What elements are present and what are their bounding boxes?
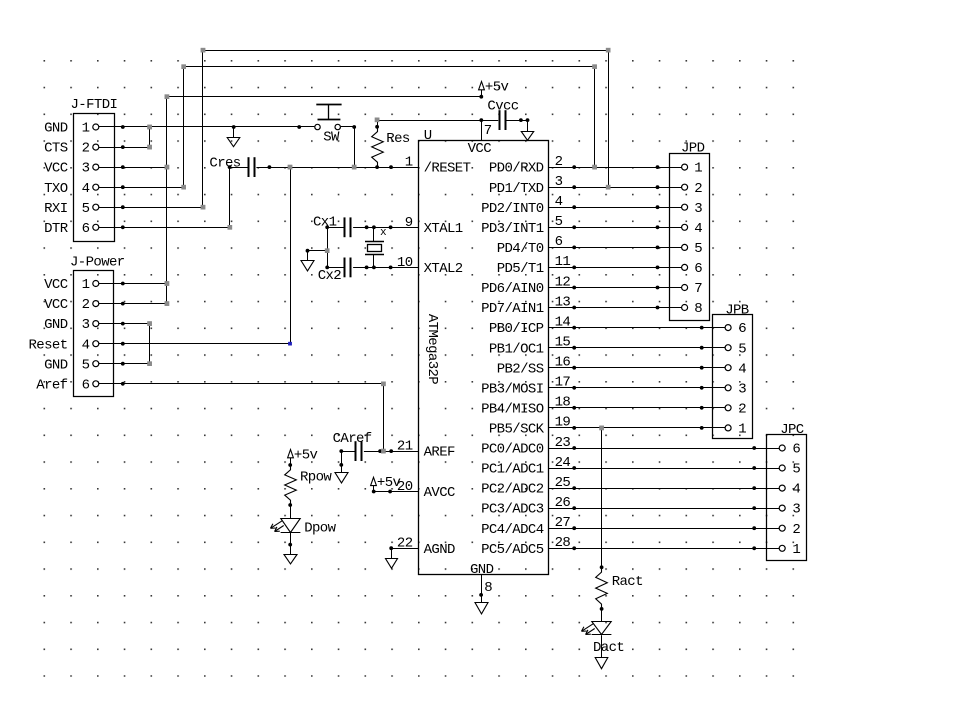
- svg-text:AGND: AGND: [424, 542, 455, 558]
- svg-text:2: 2: [792, 522, 800, 538]
- svg-text:PD7/AIN1: PD7/AIN1: [481, 301, 544, 317]
- svg-text:3: 3: [82, 161, 90, 177]
- wire PC1 pin to JPC pin 5: [549, 466, 780, 470]
- svg-text:AREF: AREF: [424, 445, 455, 461]
- IC U ATMega32P: [419, 128, 549, 578]
- svg-text:RXI: RXI: [44, 201, 67, 217]
- svg-text:CAref: CAref: [333, 431, 372, 447]
- wire PD2 pin to JPD pin 3: [549, 205, 682, 209]
- svg-text:TXO: TXO: [44, 181, 68, 197]
- wire J-FTDI RXI pin5: [99, 205, 203, 209]
- IC right pin labels and numbers: [481, 154, 570, 558]
- svg-text:3: 3: [694, 201, 702, 217]
- svg-text:PD3/INT1: PD3/INT1: [481, 221, 544, 237]
- wire PC3 pin to JPC pin 3: [549, 506, 780, 510]
- svg-text:4: 4: [694, 221, 702, 237]
- svg-text:9: 9: [405, 215, 413, 231]
- IC left pin labels and numbers: [397, 155, 471, 558]
- svg-text:5: 5: [694, 241, 702, 257]
- wire PB5/SCK to Ract: [599, 426, 604, 570]
- connector J-Power: [28, 254, 124, 396]
- svg-text:1: 1: [82, 277, 90, 293]
- svg-text:PB4/MISO: PB4/MISO: [481, 401, 544, 417]
- capacitor Cx2: [318, 258, 351, 285]
- svg-text:1: 1: [792, 542, 800, 558]
- svg-text:2: 2: [82, 297, 90, 313]
- wire J-Power GND pin5: [99, 362, 150, 366]
- wire AVCC pin20: [374, 490, 419, 494]
- wire Res top to VCC node: [377, 118, 498, 122]
- svg-text:VCC: VCC: [44, 277, 68, 293]
- svg-text:10: 10: [397, 255, 413, 271]
- wire VCC bus (J-Power/J-FTDI VCC to +5v node): [165, 94, 482, 306]
- wire PB0 pin to JPB pin 6: [549, 326, 725, 330]
- svg-text:U: U: [424, 128, 432, 144]
- svg-text:Dact: Dact: [593, 640, 624, 656]
- capacitor Cx1: [313, 215, 351, 238]
- svg-text:1: 1: [405, 155, 413, 171]
- svg-text:7: 7: [484, 123, 492, 139]
- svg-text:Dpow: Dpow: [304, 521, 336, 537]
- svg-text:6: 6: [82, 221, 90, 237]
- wire J-Power VCC pin1: [99, 282, 167, 286]
- svg-text:JPB: JPB: [725, 302, 749, 318]
- svg-text:J-Power: J-Power: [70, 254, 125, 270]
- svg-text:J-FTDI: J-FTDI: [71, 97, 118, 113]
- wire PD6 pin to JPD pin 7: [549, 286, 682, 290]
- wire PD0/RXD to J-FTDI TXO (top bus 2): [181, 64, 596, 189]
- resistor Rpow: [285, 465, 333, 507]
- svg-text:PD1/TXD: PD1/TXD: [489, 181, 544, 197]
- svg-text:GND: GND: [44, 317, 68, 333]
- svg-text:1: 1: [738, 422, 746, 438]
- IC pin 7 VCC stub: [482, 120, 492, 140]
- svg-text:PB3/MOSI: PB3/MOSI: [481, 381, 543, 397]
- wire PD1/TXD to J-FTDI RXI (top bus 1): [201, 48, 611, 210]
- svg-text:Cvcc: Cvcc: [487, 99, 518, 115]
- svg-text:PD5/T1: PD5/T1: [497, 261, 544, 277]
- svg-text:PC3/ADC3: PC3/ADC3: [481, 502, 544, 518]
- svg-text:PD2/INT0: PD2/INT0: [481, 201, 544, 217]
- svg-text:6: 6: [792, 442, 800, 458]
- wire J-Power VCC pin2: [99, 302, 167, 306]
- svg-text:+5v: +5v: [485, 79, 509, 95]
- svg-text:CTS: CTS: [44, 141, 68, 157]
- wire PC5 pin to JPC pin 1: [549, 546, 780, 550]
- ground at CAref: [335, 451, 348, 483]
- svg-text:x: x: [380, 227, 387, 239]
- svg-text:2: 2: [694, 181, 702, 197]
- wire PB3 pin to JPB pin 3: [549, 386, 725, 390]
- connector J-FTDI: [44, 97, 117, 242]
- svg-text:Res: Res: [386, 131, 410, 147]
- wire PD5 pin to JPD pin 6: [549, 266, 682, 270]
- svg-text:+5v: +5v: [377, 475, 401, 491]
- svg-text:19: 19: [555, 415, 571, 431]
- resistor Res (reset pullup): [372, 118, 410, 168]
- ground on GND net at SW: [227, 127, 240, 147]
- wire PD0 pin to JPD pin 1: [549, 165, 682, 169]
- svg-text:XTAL1: XTAL1: [424, 221, 463, 237]
- svg-text:16: 16: [555, 355, 571, 371]
- svg-text:Aref: Aref: [36, 377, 67, 393]
- svg-text:5: 5: [738, 341, 746, 357]
- svg-text:PB0/ICP: PB0/ICP: [489, 321, 544, 337]
- svg-text:3: 3: [82, 317, 90, 333]
- wire J-FTDI DTR pin6 to Cres: [99, 167, 232, 230]
- svg-text:Cx1: Cx1: [313, 215, 337, 231]
- svg-text:+5v: +5v: [294, 447, 318, 463]
- svg-text:VCC: VCC: [44, 161, 68, 177]
- svg-text:VCC: VCC: [44, 297, 68, 313]
- svg-text:5: 5: [82, 357, 90, 373]
- +5v arrow at AVCC: [371, 475, 401, 493]
- capacitor Cres: [209, 155, 254, 177]
- svg-text:6: 6: [738, 321, 746, 337]
- wire J-FTDI GND pin1 to SW: [99, 125, 315, 130]
- wire PD1 pin to JPD pin 2: [549, 185, 682, 189]
- svg-text:3: 3: [792, 502, 800, 518]
- svg-text:PC2/ADC2: PC2/ADC2: [481, 482, 544, 498]
- svg-text:PB5/SCK: PB5/SCK: [489, 422, 545, 438]
- svg-text:PC1/ADC1: PC1/ADC1: [481, 462, 544, 478]
- svg-text:2: 2: [82, 141, 90, 157]
- resistor Ract: [596, 567, 643, 611]
- ground at Dact: [595, 658, 608, 669]
- svg-text:5: 5: [792, 462, 800, 478]
- svg-text:Cres: Cres: [209, 155, 240, 171]
- ground at AGND: [386, 548, 398, 568]
- wire XTAL2 pin10: [353, 266, 418, 270]
- svg-text:4: 4: [738, 361, 746, 377]
- svg-text:GND: GND: [44, 357, 68, 373]
- svg-text:Reset: Reset: [28, 337, 67, 353]
- wire J-Power Aref pin6 to AREF pin: [99, 382, 386, 454]
- svg-text:PB1/OC1: PB1/OC1: [489, 341, 544, 357]
- svg-text:JPD: JPD: [681, 140, 705, 156]
- wire PB4 pin to JPB pin 2: [549, 406, 725, 410]
- svg-text:6: 6: [82, 377, 90, 393]
- wire J-FTDI CTS pin2 tied to GND: [99, 127, 152, 149]
- svg-text:5: 5: [82, 201, 90, 217]
- svg-text:Ract: Ract: [612, 574, 643, 590]
- svg-text:4: 4: [792, 482, 800, 498]
- LED Dpow: [271, 505, 337, 555]
- capacitor CAref: [333, 431, 372, 461]
- wire PC4 pin to JPC pin 2: [549, 526, 780, 530]
- svg-text:DTR: DTR: [44, 221, 69, 237]
- svg-text:4: 4: [82, 337, 90, 353]
- svg-text:2: 2: [738, 401, 746, 417]
- wire SW to RESET net: [341, 125, 357, 169]
- wire J-Power Reset pin4 to RESET net: [99, 165, 292, 346]
- svg-text:/RESET: /RESET: [424, 161, 471, 177]
- wire PB1 pin to JPB pin 5: [549, 346, 725, 350]
- capacitor Cvcc: [487, 99, 529, 131]
- wire RESET net into /RESET pin1: [256, 165, 418, 169]
- connector JPC: [767, 422, 807, 561]
- svg-text:ATMega32P: ATMega32P: [424, 314, 440, 384]
- svg-text:8: 8: [484, 580, 492, 596]
- svg-text:1: 1: [82, 121, 90, 137]
- connector JPD: [670, 140, 710, 320]
- connector JPB: [713, 302, 753, 438]
- svg-text:PD0/RXD: PD0/RXD: [489, 161, 544, 177]
- svg-text:7: 7: [694, 281, 702, 297]
- wire XTAL1 pin9: [353, 225, 418, 229]
- wire Cx1/Cx2 common leg: [306, 227, 330, 267]
- svg-text:6: 6: [694, 261, 702, 277]
- svg-text:17: 17: [555, 375, 571, 391]
- +5v arrow at VCC pin: [479, 79, 509, 98]
- svg-text:SW: SW: [323, 129, 340, 145]
- wire J-Power GND pin3 to GND pin5: [99, 321, 152, 366]
- svg-text:18: 18: [555, 395, 571, 411]
- wire junction corner markers overlay: [147, 48, 610, 454]
- wire PC2 pin to JPC pin 4: [549, 486, 780, 490]
- svg-text:JPC: JPC: [780, 422, 804, 438]
- svg-text:PB2/SS: PB2/SS: [497, 361, 544, 377]
- IC pin 8 GND stub: [479, 575, 492, 603]
- wire J-FTDI TXO pin4: [99, 185, 184, 189]
- ground at Cvcc: [521, 120, 533, 140]
- wire PC0 pin to JPC pin 6: [549, 446, 780, 450]
- ground at crystal caps: [301, 251, 314, 271]
- svg-text:Rpow: Rpow: [300, 470, 332, 486]
- wire AREF pin21: [364, 449, 418, 453]
- svg-text:VCC: VCC: [468, 141, 492, 157]
- svg-text:Cx2: Cx2: [318, 268, 342, 284]
- svg-text:3: 3: [738, 381, 746, 397]
- svg-text:8: 8: [694, 301, 702, 317]
- svg-text:4: 4: [82, 181, 90, 197]
- LED Dact: [582, 609, 625, 658]
- svg-text:21: 21: [397, 439, 413, 455]
- wire PD4 pin to JPD pin 5: [549, 246, 682, 250]
- wire PB5 pin to JPB pin 1: [549, 426, 725, 430]
- svg-text:1: 1: [694, 161, 702, 177]
- svg-text:PC0/ADC0: PC0/ADC0: [481, 442, 544, 458]
- +5v arrow at Rpow: [288, 447, 318, 467]
- svg-text:PD4/T0: PD4/T0: [497, 241, 544, 257]
- switch SW: [315, 104, 342, 145]
- svg-text:22: 22: [397, 536, 413, 552]
- svg-text:GND: GND: [44, 121, 68, 137]
- crystal X: [365, 227, 387, 267]
- wire PD3 pin to JPD pin 4: [549, 225, 682, 229]
- svg-text:XTAL2: XTAL2: [424, 261, 463, 277]
- svg-text:PC4/ADC4: PC4/ADC4: [481, 522, 544, 538]
- wire PD7 pin to JPD pin 8: [549, 306, 682, 310]
- svg-text:AVCC: AVCC: [424, 485, 455, 501]
- svg-text:PC5/ADC5: PC5/ADC5: [481, 542, 544, 558]
- wire PB2 pin to JPB pin 4: [549, 366, 725, 370]
- svg-text:PD6/AIN0: PD6/AIN0: [481, 281, 544, 297]
- svg-text:15: 15: [555, 335, 571, 351]
- wire AGND pin22: [389, 546, 418, 550]
- ground at Dpow: [284, 555, 297, 564]
- wire J-FTDI VCC pin3 to VCC bus: [99, 165, 167, 169]
- ground at IC pin 8: [475, 603, 488, 614]
